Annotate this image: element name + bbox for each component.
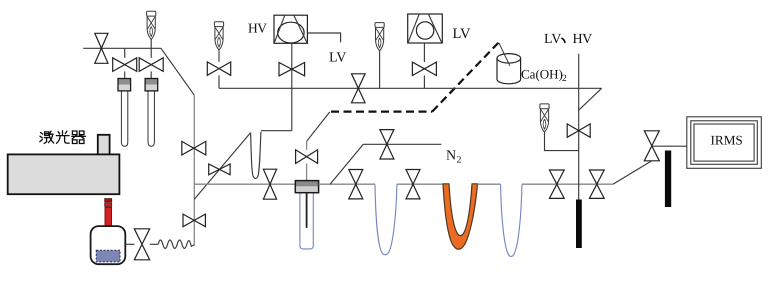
valve V14 above reaction tube [296, 150, 318, 164]
flexible bellows tube [158, 240, 194, 248]
wire lower main bus left segment [194, 183, 295, 185]
valve V3 above sample tube 2 [139, 58, 163, 72]
wire diagonal from bus end to right vertical [579, 88, 602, 110]
ablation chamber [91, 226, 126, 264]
valve V18 [589, 170, 604, 198]
wire valve V2 to cap of tube 1 [124, 71, 126, 78]
sample tube 1 body [121, 91, 127, 146]
valve V6 on top bus [352, 74, 366, 103]
wire lower bus segment c [397, 183, 443, 185]
dashed transfer line diagonal [432, 42, 499, 111]
cold finger bar 2 [665, 151, 671, 208]
reaction tube (blue) [300, 193, 313, 249]
valve V1 on top-left bus [95, 33, 108, 63]
svg-text:IRMS: IRMS [711, 132, 743, 147]
wire LV tap from HV gauge box [307, 33, 340, 42]
valve V9 on left vertical line [182, 141, 206, 155]
wire diagonal lower bus to valve V19 [613, 161, 652, 184]
svg-text:Ca(OH): Ca(OH) [521, 66, 563, 81]
LV gauge box [408, 14, 443, 43]
svg-text:N: N [446, 149, 456, 164]
valve V15 on N2 line [380, 130, 394, 159]
wire valve V12 to bellows [150, 243, 159, 245]
valve V11 on left vertical line [183, 214, 205, 227]
label Ca(OH)2 [521, 66, 567, 84]
sample tube 2 cap [145, 79, 158, 91]
cold trap loop [251, 132, 261, 179]
wire left vertical manifold line [193, 95, 195, 246]
wire G3 stem to bus [379, 51, 381, 88]
HV ionization gauge box [274, 15, 307, 43]
valve V13 on lower bus [263, 169, 276, 199]
svg-text:HV: HV [573, 32, 593, 47]
sample tube 1 cap [118, 79, 131, 91]
gauge G2 [214, 22, 223, 50]
cold finger bar 1 [576, 200, 582, 249]
IRMS instrument box [687, 117, 762, 169]
laser beam tube [105, 207, 112, 226]
svg-text:LV: LV [544, 32, 561, 47]
valve V8 on right vertical [567, 124, 590, 137]
wire gauge G1 stem through bus to valve V3 [150, 39, 152, 58]
wire G4 link to right vertical [545, 132, 579, 150]
wire LV box stem [423, 43, 425, 62]
wire diagonal branch to cold loop [194, 133, 250, 200]
svg-text:LV: LV [329, 51, 346, 66]
wire main top-left manifold bus [83, 47, 161, 49]
wire valve V19 to IRMS [652, 145, 687, 147]
Ca(OH)2 cup [497, 54, 521, 84]
valve V5 under HV gauge [279, 62, 305, 75]
N2 inlet line [363, 143, 441, 145]
wire valve V14 stem up [306, 141, 308, 150]
laser main body [8, 154, 120, 194]
valve V20 on lower bus before trap 1 [349, 170, 363, 199]
wire G2 stem to valve V4 [218, 50, 220, 62]
label LV HV [544, 32, 592, 47]
valve V4 [207, 62, 230, 75]
wire top main bus [219, 87, 602, 89]
label 激光器 (laser) drawn strokes [40, 131, 86, 144]
wire chamber to valve V12 [125, 243, 134, 245]
valve V10 on diagonal branch [209, 164, 230, 175]
valve V17 [549, 170, 564, 198]
svg-text:LV: LV [453, 26, 472, 42]
svg-text:2: 2 [562, 74, 567, 84]
thermocouple rod in reaction tube [306, 193, 308, 228]
wire valve V3 to cap of tube 2 [150, 71, 152, 78]
reaction tube cap [295, 181, 318, 193]
valve V19 before IRMS [644, 131, 659, 161]
cold trap U-tube 1 (blue) [375, 184, 397, 254]
sample holder in chamber [96, 250, 120, 261]
valve V2 above sample tube 1 [113, 58, 137, 72]
gauge G4 [540, 104, 549, 132]
wire diagonal from bus to left vertical line [161, 48, 194, 95]
valve V12 [134, 229, 149, 260]
sample tube 2 body [148, 91, 154, 146]
wire stem to valve V2 [124, 48, 126, 58]
valve V7 [412, 62, 436, 75]
svg-text:HV: HV [248, 20, 267, 35]
wire valve V4 down to bus corner [218, 75, 220, 88]
laser beam band 2 [105, 203, 112, 207]
wire loop to HV drop line [261, 130, 292, 132]
dashed transfer line horizontal [331, 110, 432, 112]
combustion furnace U-tube (orange) [443, 184, 478, 250]
wire right vertical line [578, 54, 580, 200]
wire valve V14 down to reaction tube cap [306, 163, 308, 180]
gauge G1 [147, 11, 156, 39]
wire solid diagonal to dashed line [307, 112, 330, 141]
gauge G3 [375, 23, 384, 51]
wire valve V7 to bus [423, 76, 425, 89]
cold trap U-tube 2 (blue) [501, 184, 522, 256]
laser small port block [98, 135, 110, 155]
wire HV vertical line [291, 44, 293, 131]
wire lower bus segment d [478, 183, 501, 185]
wire lower bus segment e [522, 183, 613, 185]
svg-text:2: 2 [457, 155, 462, 165]
wire into Ca(OH)2 cup [499, 43, 510, 66]
valve V16 [406, 170, 420, 199]
laser beam band 1 [105, 199, 112, 202]
wire diagonal riser to N2 line [330, 144, 363, 184]
label N2 [446, 149, 462, 166]
wire lower bus segment b [319, 183, 375, 185]
